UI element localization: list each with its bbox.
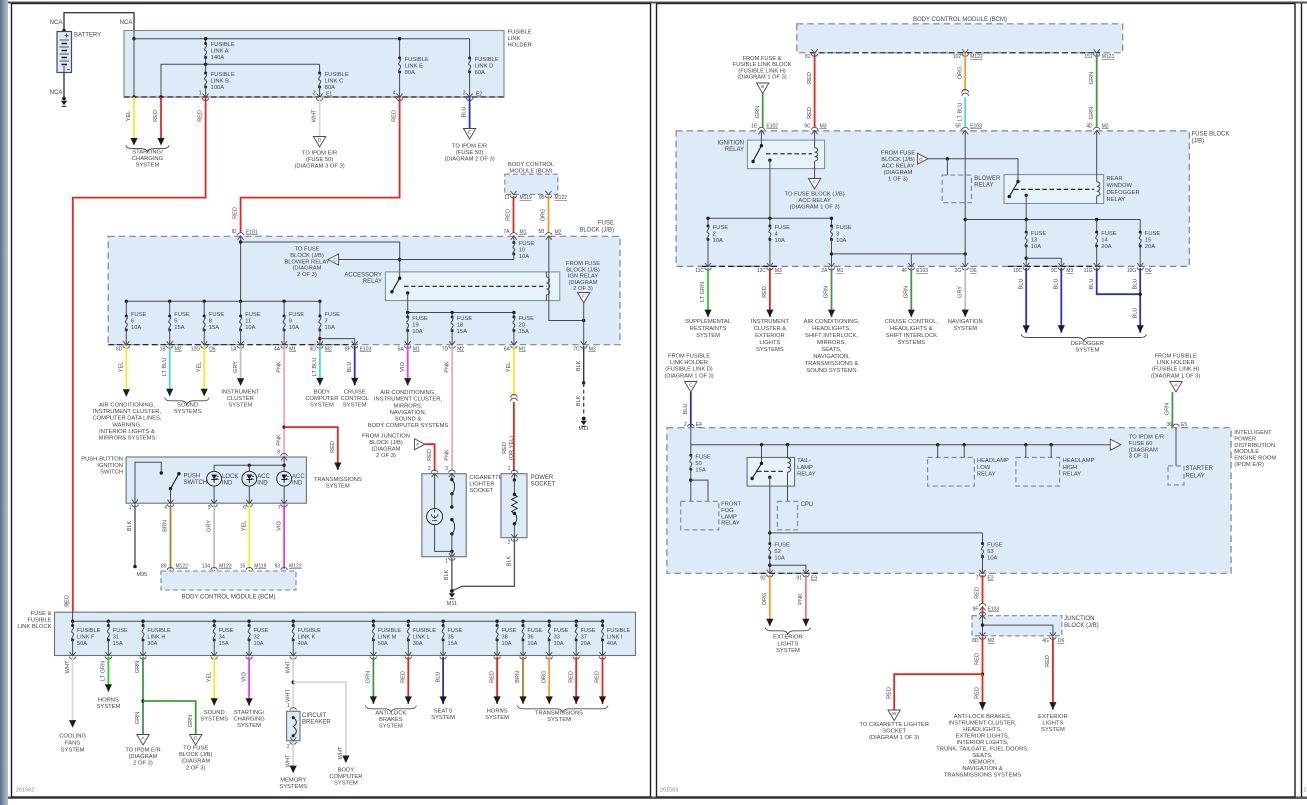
svg-text:M1: M1 bbox=[520, 230, 527, 236]
svg-text:8D: 8D bbox=[972, 638, 979, 644]
wire RED terminal1 long left drop bbox=[73, 97, 206, 612]
svg-text:35: 35 bbox=[448, 635, 454, 641]
svg-text:RELAY: RELAY bbox=[1186, 473, 1205, 479]
svg-text:102: 102 bbox=[953, 54, 962, 60]
svg-text:6: 6 bbox=[243, 505, 246, 511]
svg-text:RED: RED bbox=[807, 107, 813, 119]
svg-text:GRN: GRN bbox=[188, 715, 194, 727]
wire to terminal 7C bbox=[583, 321, 585, 345]
svg-text:92: 92 bbox=[760, 576, 766, 582]
svg-text:FUSE: FUSE bbox=[598, 221, 614, 227]
svg-text:FUSIBLE: FUSIBLE bbox=[607, 628, 631, 634]
svg-text:FUSIBLE: FUSIBLE bbox=[378, 628, 402, 634]
svg-text:COOLING: COOLING bbox=[59, 734, 86, 740]
svg-text:10A: 10A bbox=[412, 329, 422, 335]
svg-text:(FUSE 50): (FUSE 50) bbox=[456, 150, 483, 156]
svg-text:SYSTEM: SYSTEM bbox=[334, 781, 358, 787]
wire holder second bus bbox=[161, 64, 320, 97]
svg-text:50A: 50A bbox=[378, 641, 388, 647]
svg-text:10A: 10A bbox=[245, 325, 255, 331]
svg-text:3: 3 bbox=[445, 466, 448, 472]
body control module BCM box right page bbox=[797, 24, 1123, 53]
svg-text:SYSTEM: SYSTEM bbox=[953, 326, 977, 332]
defogger relay dashed link bbox=[1014, 188, 1094, 190]
wire BLU link D to IPDM bbox=[690, 392, 692, 429]
starter relay dashed box bbox=[1168, 466, 1184, 485]
svg-text:GRN: GRN bbox=[366, 671, 372, 683]
svg-text:FUSE: FUSE bbox=[245, 312, 261, 318]
svg-text:MODULE (BCM): MODULE (BCM) bbox=[509, 169, 552, 175]
svg-text:7: 7 bbox=[976, 576, 979, 582]
svg-text:2 OF 3): 2 OF 3) bbox=[376, 453, 396, 459]
IPDM top bus bbox=[690, 428, 692, 445]
svg-text:INSTRUMENT CLUSTER,: INSTRUMENT CLUSTER, bbox=[948, 721, 1017, 727]
svg-text:37: 37 bbox=[581, 635, 587, 641]
svg-text:ANTI-LOCK: ANTI-LOCK bbox=[375, 711, 406, 717]
svg-text:2G: 2G bbox=[955, 268, 962, 274]
svg-text:9F: 9F bbox=[973, 607, 979, 613]
fuse 8 15A bbox=[203, 300, 206, 303]
svg-text:RED: RED bbox=[330, 441, 336, 453]
svg-text:WHT: WHT bbox=[285, 754, 291, 767]
svg-text:COMPUTER: COMPUTER bbox=[305, 396, 338, 402]
svg-text:FUSE: FUSE bbox=[695, 455, 711, 461]
terminal 95 M122 of BCM bbox=[546, 191, 552, 195]
fuse 53 10A bbox=[982, 533, 984, 544]
svg-text:E9: E9 bbox=[811, 576, 817, 582]
svg-text:LT BLU: LT BLU bbox=[312, 358, 318, 376]
svg-text:SYSTEM: SYSTEM bbox=[96, 704, 120, 710]
svg-text:LINK C: LINK C bbox=[325, 79, 344, 85]
wire GRY navigation bbox=[964, 268, 966, 317]
connector triangle to cigarette lighter socket bbox=[888, 710, 900, 721]
fusible element 37 bbox=[575, 620, 578, 623]
wire RED junction to cigarette lighter bbox=[425, 444, 435, 471]
svg-text:10A: 10A bbox=[519, 254, 529, 260]
svg-text:M1: M1 bbox=[413, 347, 420, 353]
bottom terminals right fuse block bbox=[705, 263, 711, 267]
svg-text:10A: 10A bbox=[774, 556, 784, 562]
body control module BCM box top bbox=[505, 174, 558, 194]
wire GRN air conditioning bbox=[831, 268, 833, 317]
svg-text:M2: M2 bbox=[1102, 124, 1109, 130]
svg-text:SOCKET: SOCKET bbox=[469, 488, 493, 494]
svg-text:11: 11 bbox=[504, 195, 509, 201]
fusible link E 80A bbox=[399, 39, 401, 58]
svg-text:BODY COMPUTER SYSTEMS: BODY COMPUTER SYSTEMS bbox=[368, 423, 449, 429]
terminal 1 of power socket bbox=[511, 473, 517, 477]
svg-text:4A: 4A bbox=[274, 347, 281, 353]
svg-text:10A: 10A bbox=[502, 641, 512, 647]
svg-text:ANTI-LOCK BRAKES,: ANTI-LOCK BRAKES, bbox=[954, 714, 1012, 720]
svg-text:F: F bbox=[416, 442, 419, 448]
svg-text:M3: M3 bbox=[1066, 268, 1073, 274]
svg-text:STARTING/: STARTING/ bbox=[132, 150, 163, 156]
svg-text:1E: 1E bbox=[751, 124, 758, 130]
bottom border line bbox=[8, 797, 1307, 799]
svg-text:(DIAGRAM 1 OF 3): (DIAGRAM 1 OF 3) bbox=[869, 735, 919, 741]
svg-text:80A: 80A bbox=[405, 70, 415, 76]
svg-text:TO FUSE: TO FUSE bbox=[183, 746, 208, 752]
svg-text:M123: M123 bbox=[219, 564, 232, 570]
connector triangle F from junction block bbox=[415, 439, 426, 450]
svg-text:LAMP: LAMP bbox=[721, 514, 737, 520]
svg-text:CIRCUIT: CIRCUIT bbox=[302, 713, 327, 719]
svg-text:52: 52 bbox=[774, 549, 780, 555]
svg-text:RED: RED bbox=[401, 671, 407, 683]
svg-text:NCA: NCA bbox=[50, 90, 63, 96]
fusible link C 80A bbox=[319, 64, 321, 73]
fusible element LINK L bbox=[407, 620, 410, 623]
terminal 4D M2 top bbox=[1094, 130, 1100, 134]
svg-text:E103: E103 bbox=[988, 607, 1000, 613]
svg-text:(FUSIBLE LINK H): (FUSIBLE LINK H) bbox=[1152, 367, 1200, 373]
svg-text:7: 7 bbox=[278, 505, 281, 511]
svg-text:BODY CONTROL: BODY CONTROL bbox=[508, 162, 555, 168]
svg-text:M3: M3 bbox=[775, 268, 782, 274]
svg-text:PUSH: PUSH bbox=[184, 474, 201, 480]
svg-text:18: 18 bbox=[457, 323, 463, 329]
ignition relay dashed link bbox=[766, 153, 812, 155]
fusible link A 140A bbox=[205, 39, 207, 44]
svg-text:4D: 4D bbox=[1086, 124, 1093, 130]
svg-text:SOUND: SOUND bbox=[177, 403, 198, 409]
svg-text:TO FUSE: TO FUSE bbox=[294, 247, 319, 253]
wire ORG IGN feed vertical bbox=[549, 236, 584, 320]
svg-text:BLOCK (J/B): BLOCK (J/B) bbox=[1064, 623, 1099, 629]
svg-text:RELAY: RELAY bbox=[1063, 472, 1082, 478]
svg-text:M119: M119 bbox=[520, 195, 532, 201]
svg-text:SYSTEM: SYSTEM bbox=[776, 648, 800, 654]
terminal 4G D6 of junction block bbox=[1050, 632, 1056, 636]
svg-text:ACCESSORY: ACCESSORY bbox=[344, 273, 382, 279]
fuse block J/B box bbox=[108, 236, 620, 344]
terminal 4 of holder bbox=[397, 94, 403, 98]
svg-text:(DIAGRAM 1 OF 3): (DIAGRAM 1 OF 3) bbox=[1151, 373, 1200, 379]
right fuse block bottom edge black dashes bbox=[702, 265, 778, 267]
svg-text:89: 89 bbox=[161, 564, 167, 570]
wire YEL fuse20 bbox=[513, 346, 515, 396]
svg-text:EXTERIOR: EXTERIOR bbox=[755, 333, 785, 339]
svg-text:BLU: BLU bbox=[347, 362, 353, 373]
ignition relay box bbox=[747, 140, 824, 169]
connector triangle B from fusible link H bbox=[757, 83, 769, 94]
svg-text:TRANSMISSIONS SYSTEMS: TRANSMISSIONS SYSTEMS bbox=[944, 773, 1021, 779]
svg-text:15A: 15A bbox=[457, 329, 467, 335]
svg-text:SYSTEM: SYSTEM bbox=[326, 484, 350, 490]
svg-text:91: 91 bbox=[796, 576, 802, 582]
fuse 10 10A bbox=[513, 236, 515, 242]
terminal 82 of BCM bbox=[812, 49, 818, 53]
svg-text:LT GRN: LT GRN bbox=[700, 282, 706, 302]
svg-text:FROM FUSE &: FROM FUSE & bbox=[743, 56, 782, 62]
svg-text:15: 15 bbox=[1145, 238, 1151, 244]
wire RED OR YEL to power socket bbox=[513, 402, 515, 471]
wire GRN cruise control bbox=[910, 268, 912, 317]
svg-text:SYSTEMS: SYSTEMS bbox=[279, 784, 307, 790]
svg-text:AIR CONDITIONING,: AIR CONDITIONING, bbox=[380, 390, 436, 396]
svg-text:SHIFT INTERLOCK,: SHIFT INTERLOCK, bbox=[805, 333, 858, 339]
svg-text:3: 3 bbox=[836, 232, 839, 238]
terminals 89 134 15 93 of BCM bbox=[168, 571, 174, 575]
svg-text:BLU: BLU bbox=[1132, 279, 1138, 290]
svg-text:BLOCK (J/B): BLOCK (J/B) bbox=[566, 267, 600, 273]
svg-text:6A: 6A bbox=[504, 347, 511, 353]
wire YEL fuse6 bbox=[125, 346, 127, 397]
svg-text:FUSE: FUSE bbox=[209, 312, 225, 318]
svg-text:FUSE: FUSE bbox=[502, 628, 517, 634]
fusible link holder box bbox=[124, 31, 504, 98]
svg-text:FROM FUSIBLE: FROM FUSIBLE bbox=[1155, 354, 1197, 360]
wire RED exterior lights right bbox=[1052, 637, 1054, 710]
svg-text:TO IPDM E/R: TO IPDM E/R bbox=[125, 748, 160, 754]
connector triangle E to IPDM ER bbox=[463, 129, 475, 140]
svg-text:RELAY: RELAY bbox=[1107, 197, 1126, 203]
svg-text:MIRRORS,: MIRRORS, bbox=[394, 403, 423, 409]
svg-text:10: 10 bbox=[519, 248, 525, 254]
terminal 92 of IPDM bbox=[767, 570, 773, 574]
svg-text:FRONT: FRONT bbox=[721, 502, 741, 508]
wire BLK power socket to M11 bbox=[452, 539, 515, 591]
fuse 6 10A bbox=[125, 300, 128, 303]
svg-text:RED: RED bbox=[427, 449, 433, 461]
connector triangle from IGN relay bbox=[578, 293, 590, 304]
defogger relay coil bbox=[1096, 131, 1098, 182]
brace anti-lock brakes bbox=[365, 706, 416, 713]
svg-text:TO CIGARETTE LIGHTER: TO CIGARETTE LIGHTER bbox=[859, 722, 928, 728]
tail lamp relay coil bbox=[787, 445, 789, 458]
svg-text:36: 36 bbox=[527, 635, 533, 641]
wire WHT cooling fans bbox=[72, 657, 74, 728]
svg-text:LINK F: LINK F bbox=[77, 635, 95, 641]
svg-text:RED: RED bbox=[198, 110, 204, 122]
svg-text:E2: E2 bbox=[476, 92, 482, 98]
fuse 3 10A bbox=[830, 225, 833, 228]
svg-text:10A: 10A bbox=[254, 641, 264, 647]
svg-text:D6: D6 bbox=[1145, 268, 1152, 274]
svg-text:INSTRUMENT CLUSTER,: INSTRUMENT CLUSTER, bbox=[374, 397, 443, 403]
fuse 4 10A bbox=[769, 218, 771, 226]
svg-text:WARNING,: WARNING, bbox=[112, 422, 142, 428]
svg-text:HORNS: HORNS bbox=[487, 709, 508, 715]
svg-text:4F: 4F bbox=[901, 268, 907, 274]
svg-text:HIGH: HIGH bbox=[1063, 465, 1078, 471]
svg-text:4: 4 bbox=[393, 91, 396, 97]
wire YEL fuse8 bbox=[203, 346, 205, 396]
fusible element 35 bbox=[441, 620, 444, 623]
svg-text:LIGHTER: LIGHTER bbox=[469, 482, 494, 488]
svg-text:(DIAGRAM: (DIAGRAM bbox=[181, 759, 210, 765]
accessory relay dashed link bbox=[404, 285, 546, 287]
body control module BCM box bottom bbox=[161, 571, 296, 590]
svg-text:SYSTEMS: SYSTEMS bbox=[756, 347, 784, 353]
svg-text:AIR CONDITIONING,: AIR CONDITIONING, bbox=[99, 403, 155, 409]
wire LT BLU fuse7col bbox=[319, 346, 321, 385]
svg-text:RED: RED bbox=[975, 587, 981, 599]
svg-text:SOUND: SOUND bbox=[204, 710, 225, 716]
third page sliver bbox=[1301, 4, 1303, 798]
svg-text:RELAY: RELAY bbox=[977, 472, 996, 478]
terminal 11 M119 of BCM bbox=[511, 191, 517, 195]
svg-text:PNK: PNK bbox=[276, 361, 282, 373]
tail lamp relay box bbox=[747, 457, 795, 486]
svg-text:M3: M3 bbox=[589, 347, 596, 353]
svg-text:12G: 12G bbox=[191, 347, 201, 353]
svg-text:DISTRIBUTION: DISTRIBUTION bbox=[1234, 443, 1275, 449]
left page frame bbox=[12, 4, 651, 798]
ground M11 bbox=[450, 589, 454, 593]
svg-text:2 OF 3): 2 OF 3) bbox=[573, 286, 593, 292]
wire YEL to BCM bbox=[248, 505, 250, 570]
svg-text:FUSE: FUSE bbox=[174, 312, 190, 318]
svg-text:E2: E2 bbox=[988, 576, 994, 582]
accessory relay box bbox=[385, 272, 559, 301]
fuse 11 10A bbox=[239, 300, 242, 303]
wire fuse13 jog to 9C bbox=[1026, 258, 1061, 266]
svg-text:BLU: BLU bbox=[1089, 279, 1095, 290]
svg-text:BLOWER RELAY: BLOWER RELAY bbox=[284, 259, 329, 265]
connector triangle A fusible link H bbox=[1170, 382, 1182, 393]
svg-text:30A: 30A bbox=[413, 641, 423, 647]
wire GRN link H to fuse block bbox=[762, 94, 764, 128]
svg-text:WHT: WHT bbox=[65, 660, 71, 673]
svg-text:TO FUSE BLOCK (J/B): TO FUSE BLOCK (J/B) bbox=[785, 192, 845, 198]
front fog lamp relay dashed box bbox=[681, 501, 719, 530]
svg-text:9D: 9D bbox=[309, 347, 316, 353]
svg-text:FUSE: FUSE bbox=[836, 225, 852, 231]
junction block J/B box bbox=[982, 607, 984, 616]
svg-text:E101: E101 bbox=[246, 230, 258, 236]
svg-text:TO IPDM E/R: TO IPDM E/R bbox=[302, 151, 337, 157]
svg-text:FUSIBLE: FUSIBLE bbox=[147, 628, 171, 634]
svg-text:10A: 10A bbox=[527, 641, 537, 647]
svg-text:261562: 261562 bbox=[16, 788, 34, 794]
fuse block bottom edge black dashes bbox=[108, 344, 356, 346]
svg-text:YEL: YEL bbox=[119, 362, 125, 373]
accessory relay switch bbox=[399, 272, 401, 278]
svg-text:TRANSMISSIONS &: TRANSMISSIONS & bbox=[805, 361, 859, 367]
fusible element LINK I bbox=[601, 620, 604, 623]
wire RED link I transmissions bbox=[602, 657, 604, 704]
svg-text:SOCKET: SOCKET bbox=[531, 482, 556, 488]
wire BRN to BCM bbox=[170, 505, 172, 570]
indicator ACC IND 1 bbox=[242, 471, 257, 486]
top border line bbox=[8, 2, 1307, 4]
indicator LOCK IND bbox=[207, 471, 222, 486]
svg-text:8: 8 bbox=[209, 319, 212, 325]
svg-text:SYSTEM: SYSTEM bbox=[696, 333, 720, 339]
svg-text:11G: 11G bbox=[1084, 268, 1093, 274]
terminal ID E101 bbox=[238, 236, 244, 240]
brace sound systems bbox=[165, 398, 210, 405]
svg-text:FUSE: FUSE bbox=[325, 312, 341, 318]
fusible element LINK M bbox=[372, 620, 375, 623]
svg-text:FUSIBLE: FUSIBLE bbox=[508, 30, 532, 36]
connector triangle D to fuse block bbox=[190, 735, 202, 746]
svg-text:FUSE: FUSE bbox=[713, 225, 729, 231]
svg-text:CPU: CPU bbox=[801, 502, 814, 508]
svg-text:FUSE: FUSE bbox=[457, 316, 473, 322]
svg-text:FROM FUSE: FROM FUSE bbox=[566, 261, 600, 267]
svg-text:GRN: GRN bbox=[1089, 72, 1095, 84]
svg-text:M3: M3 bbox=[820, 124, 827, 130]
svg-text:20A: 20A bbox=[581, 641, 591, 647]
svg-text:80A: 80A bbox=[325, 85, 335, 91]
svg-text:YEL: YEL bbox=[506, 362, 512, 373]
svg-text:1B: 1B bbox=[160, 347, 167, 353]
terminal 2 circuit breaker bbox=[290, 737, 296, 741]
svg-text:FUSIBLE: FUSIBLE bbox=[405, 57, 429, 63]
wire WHT to memory systems bbox=[292, 742, 294, 773]
svg-text:AIR CONDITIONING,: AIR CONDITIONING, bbox=[804, 319, 860, 325]
terminal 5B M2 bbox=[546, 236, 552, 240]
svg-text:FUSIBLE: FUSIBLE bbox=[27, 618, 51, 624]
svg-text:PNK: PNK bbox=[276, 434, 282, 446]
svg-text:FUSE BLOCK: FUSE BLOCK bbox=[1192, 132, 1230, 138]
wire RED transmissions bbox=[575, 657, 577, 704]
wire BLU defogger 9C bbox=[1060, 268, 1062, 333]
svg-text:GRN: GRN bbox=[1165, 403, 1171, 415]
svg-text:FUSIBLE: FUSIBLE bbox=[475, 57, 499, 63]
svg-text:10A: 10A bbox=[1031, 244, 1041, 250]
svg-text:(J/B): (J/B) bbox=[1192, 139, 1205, 145]
fusible element LINK F bbox=[71, 620, 74, 623]
svg-text:LINK HOLDER: LINK HOLDER bbox=[670, 360, 708, 366]
svg-text:5: 5 bbox=[208, 505, 211, 511]
wire BLK cigarette lighter to M11 bbox=[451, 558, 453, 590]
svg-text:(DIAGRAM: (DIAGRAM bbox=[129, 754, 158, 760]
svg-text:M1: M1 bbox=[837, 268, 844, 274]
svg-text:D6: D6 bbox=[1058, 638, 1065, 644]
svg-text:FUSE: FUSE bbox=[519, 316, 535, 322]
svg-text:10A: 10A bbox=[836, 238, 846, 244]
wire ACC relay feed to defogger relay bbox=[928, 158, 1018, 160]
svg-text:(DIAGRAM 1 OF 3): (DIAGRAM 1 OF 3) bbox=[789, 205, 839, 211]
svg-text:SEATS,: SEATS, bbox=[972, 753, 993, 759]
connector triangle to IPDM fuse 60 bbox=[1110, 439, 1121, 450]
power socket resistor bbox=[513, 474, 515, 480]
svg-text:20A: 20A bbox=[1101, 244, 1111, 250]
svg-text:MIRRORS SYSTEMS: MIRRORS SYSTEMS bbox=[99, 436, 156, 442]
wire RED to cigarette lighter page ref bbox=[982, 637, 984, 674]
svg-text:GRN: GRN bbox=[1089, 107, 1095, 119]
svg-text:HEADLIGHTS,: HEADLIGHTS, bbox=[812, 326, 851, 332]
svg-text:M2: M2 bbox=[555, 230, 562, 236]
push switch lever bbox=[177, 472, 180, 475]
svg-text:SYSTEMS: SYSTEMS bbox=[200, 717, 228, 723]
svg-text:6: 6 bbox=[131, 319, 134, 325]
svg-text:31: 31 bbox=[113, 635, 119, 641]
svg-text:LINK: LINK bbox=[508, 36, 521, 42]
svg-text:BLK: BLK bbox=[507, 555, 513, 566]
svg-text:RED: RED bbox=[886, 687, 892, 699]
fusible element LINK H bbox=[141, 620, 144, 623]
svg-text:G: G bbox=[333, 258, 337, 264]
svg-text:BLU: BLU bbox=[683, 404, 689, 415]
svg-text:FROM JUNCTION: FROM JUNCTION bbox=[362, 434, 410, 440]
svg-text:SYSTEM: SYSTEM bbox=[228, 403, 252, 409]
svg-text:(DIAGRAM 2 OF 3): (DIAGRAM 2 OF 3) bbox=[444, 157, 494, 163]
wire fuse10 to blower relay triangle bbox=[339, 259, 514, 261]
svg-text:10G: 10G bbox=[1127, 268, 1137, 274]
svg-text:ORG: ORG bbox=[762, 593, 768, 606]
svg-text:IND: IND bbox=[257, 480, 268, 486]
svg-text:(DIAGRAM: (DIAGRAM bbox=[884, 170, 913, 176]
wire GRN link H to IPDM bbox=[1171, 392, 1173, 429]
terminal 2 E1 of holder bbox=[317, 94, 323, 98]
terminal 3 E2 of holder bbox=[467, 94, 473, 98]
svg-text:2 OF 3): 2 OF 3) bbox=[297, 272, 317, 278]
